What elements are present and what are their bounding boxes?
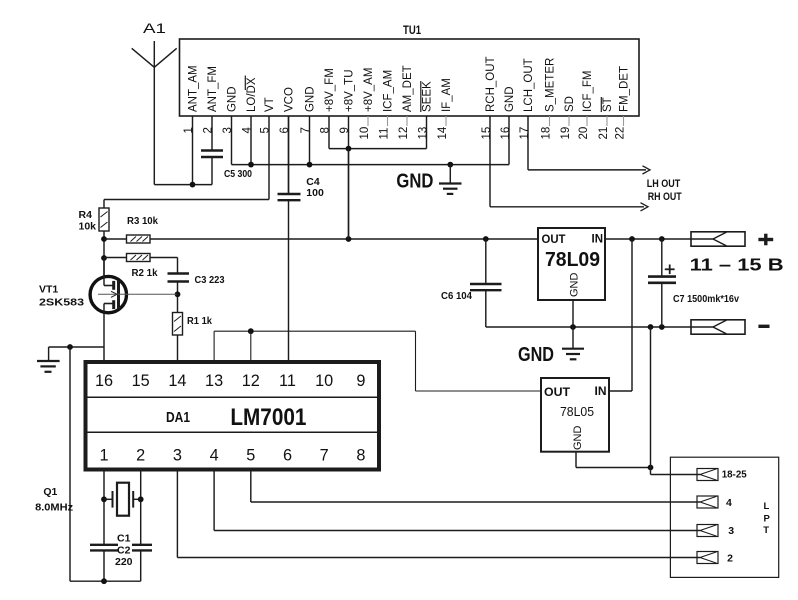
svg-text:22: 22: [615, 127, 627, 140]
svg-text:C1: C1: [117, 533, 131, 545]
svg-text:3: 3: [728, 525, 734, 537]
svg-text:GND: GND: [518, 344, 554, 366]
svg-text:R2 1k: R2 1k: [132, 267, 158, 279]
svg-text:GND: GND: [305, 86, 317, 112]
svg-text:78L09: 78L09: [545, 249, 600, 271]
svg-text:11: 11: [279, 372, 296, 390]
svg-text:100: 100: [306, 187, 324, 199]
svg-text:DA1: DA1: [166, 409, 190, 426]
svg-text:2: 2: [727, 552, 733, 564]
svg-text:15: 15: [132, 372, 150, 390]
svg-text:C2: C2: [117, 545, 131, 557]
svg-text:IN: IN: [595, 384, 607, 398]
svg-text:T: T: [763, 525, 769, 536]
svg-text:4: 4: [726, 497, 732, 509]
svg-text:ST: ST: [602, 97, 614, 112]
svg-text:18-25: 18-25: [722, 469, 747, 481]
svg-text:VT: VT: [264, 97, 276, 112]
svg-text:OUT: OUT: [544, 385, 571, 399]
svg-text:LO/DX: LO/DX: [246, 77, 258, 112]
svg-text:RCH_OUT: RCH_OUT: [485, 56, 497, 112]
svg-text:SD: SD: [564, 96, 576, 112]
svg-text:GND: GND: [227, 86, 239, 112]
svg-text:3: 3: [173, 447, 182, 465]
svg-text:GND: GND: [396, 171, 433, 193]
svg-text:16: 16: [500, 127, 512, 140]
svg-text:1: 1: [183, 127, 195, 133]
svg-text:SEEK: SEEK: [422, 81, 434, 112]
svg-text:8.0MHz: 8.0MHz: [35, 502, 73, 514]
svg-text:14: 14: [437, 126, 449, 139]
svg-text:7: 7: [320, 447, 329, 465]
svg-text:TU1: TU1: [403, 23, 421, 37]
svg-text:LM7001: LM7001: [230, 404, 306, 431]
svg-text:FM_DET: FM_DET: [619, 66, 631, 112]
svg-text:9: 9: [339, 127, 351, 133]
svg-text:1: 1: [99, 447, 108, 465]
svg-text:6: 6: [279, 127, 291, 133]
svg-text:7: 7: [300, 127, 312, 133]
svg-text:18: 18: [541, 127, 553, 140]
svg-text:5: 5: [260, 127, 272, 133]
svg-text:ANT_FM: ANT_FM: [207, 66, 219, 112]
svg-text:6: 6: [283, 447, 292, 465]
svg-text:+8V_TU: +8V_TU: [344, 69, 356, 112]
svg-text:12: 12: [398, 127, 410, 140]
svg-text:78L05: 78L05: [560, 405, 594, 419]
svg-text:5: 5: [246, 447, 255, 465]
svg-text:C6 104: C6 104: [441, 290, 472, 302]
svg-text:17: 17: [519, 127, 531, 140]
svg-text:LCH_OUT: LCH_OUT: [523, 58, 535, 112]
svg-text:GND: GND: [572, 426, 584, 451]
svg-text:14: 14: [168, 372, 186, 390]
svg-text:ICF_AM: ICF_AM: [383, 70, 395, 112]
svg-text:2: 2: [136, 447, 145, 465]
svg-text:P: P: [764, 513, 771, 524]
svg-text:10: 10: [315, 372, 333, 390]
svg-text:+8V_FM: +8V_FM: [324, 68, 336, 112]
svg-text:Q1: Q1: [43, 486, 57, 498]
svg-text:19: 19: [560, 127, 572, 140]
svg-text:IN: IN: [592, 234, 604, 246]
svg-text:2: 2: [203, 127, 215, 133]
svg-text:OUT: OUT: [542, 234, 566, 246]
svg-text:4: 4: [210, 447, 219, 465]
svg-text:VT1: VT1: [39, 284, 58, 296]
svg-text:VCO: VCO: [284, 87, 296, 112]
svg-text:AM_DET: AM_DET: [402, 65, 414, 112]
svg-text:ANT_AM: ANT_AM: [188, 65, 200, 112]
svg-text:220: 220: [115, 556, 133, 568]
svg-text:13: 13: [205, 372, 223, 390]
svg-text:C5 300: C5 300: [224, 168, 252, 180]
svg-text:S_METER: S_METER: [545, 58, 557, 112]
svg-text:3: 3: [222, 127, 234, 133]
svg-text:20: 20: [578, 127, 590, 140]
svg-text:10k: 10k: [79, 221, 97, 233]
svg-text:ICF_FM: ICF_FM: [582, 70, 594, 112]
svg-text:8: 8: [356, 447, 365, 465]
svg-text:21: 21: [598, 127, 610, 140]
svg-text:8: 8: [320, 127, 332, 133]
svg-text:L: L: [764, 501, 770, 512]
svg-text:R1 1k: R1 1k: [187, 315, 212, 327]
svg-text:2SK583: 2SK583: [39, 297, 84, 309]
svg-text:C7 1500mk*16v: C7 1500mk*16v: [673, 293, 739, 305]
svg-text:LH OUT: LH OUT: [647, 178, 681, 190]
svg-text:16: 16: [95, 372, 113, 390]
svg-text:IF_AM: IF_AM: [441, 78, 453, 112]
svg-text:11: 11: [379, 128, 391, 140]
svg-text:R4: R4: [79, 209, 93, 221]
svg-text:12: 12: [242, 372, 260, 390]
svg-text:9: 9: [356, 372, 365, 390]
svg-text:R3 10k: R3 10k: [127, 215, 158, 227]
svg-text:4: 4: [242, 126, 254, 133]
svg-text:GND: GND: [569, 273, 581, 298]
svg-text:15: 15: [481, 127, 493, 140]
svg-text:+8V_AM: +8V_AM: [363, 68, 375, 112]
svg-text:RH OUT: RH OUT: [648, 191, 682, 203]
svg-text:11 – 15 В: 11 – 15 В: [690, 255, 784, 275]
svg-text:10: 10: [359, 127, 371, 140]
svg-text:A1: A1: [143, 21, 166, 36]
svg-text:GND: GND: [504, 86, 516, 112]
svg-text:13: 13: [418, 127, 430, 140]
svg-text:C3 223: C3 223: [195, 274, 225, 286]
